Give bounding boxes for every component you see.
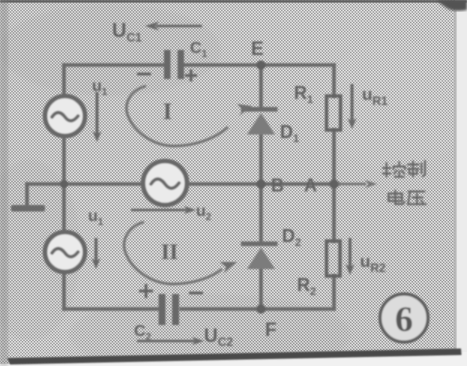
svg-text:A: A <box>304 176 317 196</box>
arrow control output (points right) <box>338 180 377 188</box>
svg-text:B: B <box>271 176 284 196</box>
node E dot <box>256 60 265 69</box>
arrow uR1 reference <box>348 84 357 129</box>
arrow Uc1 (points left) <box>145 22 202 31</box>
svg-text:6: 6 <box>395 299 413 339</box>
capacitor C2 plates <box>159 294 179 325</box>
arrow u2 (points right) <box>131 206 196 214</box>
label plus C1 <box>185 70 197 82</box>
loop I arrow <box>127 86 252 146</box>
wire left rail <box>62 65 66 309</box>
right white scan margin <box>455 0 467 366</box>
loop II arrow <box>124 222 237 284</box>
arrow u1 upper reference <box>93 92 102 142</box>
char dian <box>389 191 405 205</box>
svg-text:E: E <box>251 39 264 60</box>
AC source u1 lower <box>45 232 85 272</box>
arrow uR2 reference <box>346 238 355 275</box>
wire middle rail <box>27 182 338 186</box>
label minus C1 <box>137 73 151 76</box>
diode D1 <box>241 107 278 135</box>
ground <box>11 205 45 212</box>
wire ground stub <box>25 184 29 205</box>
capacitor C1 plates <box>164 50 184 79</box>
AC source u1 upper <box>45 96 85 136</box>
node A dot <box>329 179 338 188</box>
label minus C2 <box>189 292 203 295</box>
bottom dark scan edge <box>0 352 467 366</box>
char kong <box>383 162 405 177</box>
label plus C2 <box>139 284 153 298</box>
char zhi <box>408 161 425 177</box>
circled 6 figure number <box>380 294 428 342</box>
chinese text kongzhi dianya (control voltage) <box>383 161 426 205</box>
wire diode branch <box>259 65 263 309</box>
svg-text:II: II <box>161 239 178 264</box>
node left junction dot <box>60 180 68 188</box>
wire right rail <box>332 65 336 309</box>
svg-text:F: F <box>265 320 277 341</box>
svg-text:I: I <box>163 99 172 124</box>
wire bottom rail <box>64 307 334 311</box>
left darker strip <box>0 0 8 366</box>
arrow u1 lower reference <box>92 238 101 269</box>
node F dot <box>256 304 265 313</box>
AC source u2 middle <box>143 161 187 205</box>
resistor R2 <box>327 241 341 276</box>
node B dot <box>256 179 265 188</box>
wire top rail <box>64 63 334 67</box>
resistor R1 <box>327 96 341 130</box>
char ya <box>408 192 426 205</box>
arrow Uc2 (points right) <box>137 337 204 345</box>
top dark scan edge <box>0 0 467 3</box>
diode D2 <box>241 242 278 270</box>
